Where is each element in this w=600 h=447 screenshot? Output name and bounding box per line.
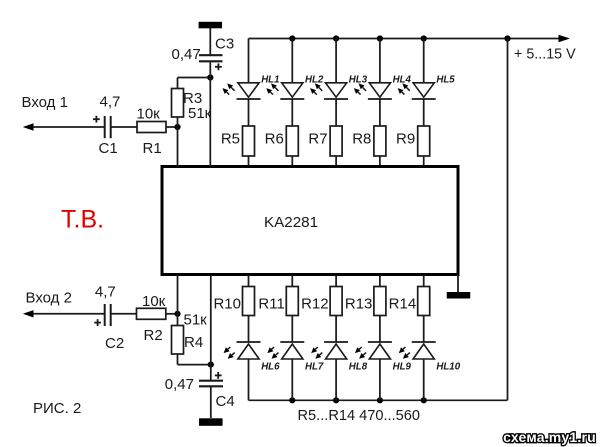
R2 label (144, 327, 163, 344)
svg-text:R5: R5 (221, 131, 240, 148)
LED HL7 light arrows (267, 347, 278, 359)
wire IC pin to R14 (423, 275, 425, 287)
LED HL10 light arrows (399, 347, 410, 359)
svg-text:R2: R2 (144, 327, 163, 344)
wire R14 to HL10 (423, 316, 425, 343)
LED HL5 label (436, 75, 455, 86)
wire HL3 to R7 (335, 99, 337, 126)
resistor R14 label (389, 296, 417, 313)
junction on bottom rail col 4 (377, 397, 383, 403)
svg-text:KA2281: KA2281 (264, 214, 318, 231)
junction on bottom rail col 5 (421, 397, 427, 403)
LED HL6 symbol (237, 342, 261, 359)
LED HL2 light arrows (266, 83, 278, 94)
svg-text:4,7: 4,7 (100, 94, 121, 111)
resistor R5 (243, 126, 255, 156)
svg-text:R5...R14 470...560: R5...R14 470...560 (298, 408, 421, 424)
svg-text:HL5: HL5 (436, 75, 455, 86)
resistor R10 (243, 287, 255, 316)
capacitor C1 (105, 116, 111, 138)
svg-text:R10: R10 (213, 296, 241, 313)
svg-text:Т.В.: Т.В. (61, 206, 104, 234)
op-amp IC U1 KA2281 body (162, 167, 458, 275)
svg-text:Вход 1: Вход 1 (22, 94, 68, 111)
LED HL8 label (349, 362, 368, 373)
junction power rail / right rail (504, 35, 510, 41)
svg-text:C1: C1 (99, 140, 118, 157)
resistor R6 label (265, 131, 284, 148)
node A junction (174, 124, 180, 130)
svg-text:+ 5...15 V: + 5...15 V (514, 47, 576, 63)
resistor R3 (172, 89, 184, 118)
svg-text:R12: R12 (301, 296, 329, 313)
svg-text:HL6: HL6 (261, 362, 280, 373)
svg-text:HL8: HL8 (349, 362, 368, 373)
svg-text:HL2: HL2 (305, 75, 324, 86)
svg-text:HL9: HL9 (393, 362, 412, 373)
R2 value 10к (142, 293, 166, 310)
wire R11 to HL7 (291, 316, 293, 343)
C3 polarity + (215, 63, 222, 70)
junction on power rail col 5 (421, 35, 427, 41)
power rail arrowhead (559, 35, 571, 42)
wire rail to HL3 (335, 39, 337, 83)
svg-text:R4: R4 (184, 334, 203, 351)
junction on power rail col 3 (333, 35, 339, 41)
wire HL2 to R6 (291, 99, 293, 126)
svg-text:C4: C4 (216, 393, 235, 410)
wire node B to IC pin (209, 78, 211, 168)
C2 value 4,7 (95, 283, 116, 300)
LED HL3 label (349, 75, 368, 86)
svg-text:R14: R14 (389, 296, 417, 313)
resistor R5 label (221, 131, 240, 148)
resistor R12 label (301, 296, 329, 313)
resistor R8 label (352, 131, 371, 148)
svg-text:10к: 10к (137, 106, 161, 123)
R1 label (143, 140, 162, 157)
svg-text:HL4: HL4 (393, 75, 412, 86)
capacitor C4 (199, 381, 223, 387)
LED HL10 symbol (412, 342, 436, 359)
svg-text:R8: R8 (352, 131, 371, 148)
wire R9 to IC pin (423, 156, 425, 167)
wire R4 down (177, 354, 179, 365)
wire HL10 to bottom rail (423, 359, 425, 400)
svg-text:HL7: HL7 (305, 362, 324, 373)
wire rail to HL4 (379, 39, 381, 83)
junction on bottom rail col 2 (289, 397, 295, 403)
LED HL5 light arrows (398, 83, 410, 94)
LED HL6 light arrows (224, 347, 235, 359)
LED HL8 symbol (324, 342, 348, 359)
input 1 arrowhead (23, 123, 34, 130)
LED HL6 label (261, 362, 280, 373)
wire node D to C4 (210, 365, 212, 381)
svg-text:0,47: 0,47 (172, 46, 201, 63)
junction on bottom rail col 3 (333, 397, 339, 403)
wire R3 to node B (178, 77, 211, 79)
wire HL7 to bottom rail (291, 359, 293, 400)
wire HL1 to R5 (248, 99, 250, 126)
svg-text:51к: 51к (188, 105, 212, 122)
junction on power rail col 2 (289, 35, 295, 41)
wire HL5 to R9 (423, 99, 425, 126)
right vertical rail (507, 39, 509, 401)
R4 label (184, 334, 203, 351)
C2 polarity + (94, 319, 101, 326)
power rail +5...15V (249, 38, 560, 40)
resistor R6 (286, 126, 298, 156)
wire R2 to node C (166, 313, 178, 315)
wire IC to ground (457, 275, 459, 292)
title Т.В. (61, 206, 104, 234)
wire node A to R3 (177, 117, 179, 127)
wire HL4 to R8 (379, 99, 381, 126)
wire R10 to HL6 (248, 316, 250, 343)
node D junction (208, 362, 214, 368)
wire C3 to ground (209, 28, 211, 55)
svg-text:схема.my1.ru: схема.my1.ru (503, 429, 596, 445)
resistor R12 (330, 287, 342, 316)
wire rail to HL5 (423, 39, 425, 83)
svg-text:РИС. 2: РИС. 2 (33, 400, 81, 417)
svg-text:R13: R13 (345, 296, 373, 313)
svg-text:Вход 2: Вход 2 (26, 289, 72, 306)
wire R8 to IC pin (379, 156, 381, 167)
LED HL7 label (305, 362, 324, 373)
watermark схема.my1.ru (503, 429, 596, 445)
wire HL6 to bottom rail (248, 359, 250, 400)
wire R13 to HL9 (379, 316, 381, 343)
node C junction (174, 311, 180, 317)
wire R4 to node D (178, 364, 211, 366)
wire HL9 to bottom rail (379, 359, 381, 400)
wire node C to R4 (177, 314, 179, 326)
wire IC pin to R10 (248, 275, 250, 287)
resistor R10 label (213, 296, 241, 313)
resistor R11 (286, 287, 298, 316)
capacitor C2 (105, 304, 111, 326)
wire IC pin to R11 (291, 275, 293, 287)
LED HL8 light arrows (311, 347, 322, 359)
C1 polarity + (93, 116, 100, 123)
wire IC pin to R13 (379, 275, 381, 287)
C4 label (216, 393, 235, 410)
svg-text:0,47: 0,47 (165, 376, 194, 393)
svg-text:R1: R1 (143, 140, 162, 157)
node B junction (207, 74, 213, 80)
wire R1 to node A (166, 126, 178, 128)
resistor R13 (374, 287, 386, 316)
svg-text:4,7: 4,7 (95, 283, 116, 300)
ground at C4 (199, 418, 223, 426)
C4 value 0,47 (165, 376, 194, 393)
C1 value 4,7 (100, 94, 121, 111)
wire IC pin to node D (210, 275, 212, 365)
resistor R9 (418, 126, 430, 156)
LED HL4 label (393, 75, 412, 86)
wire C2 to R2 (111, 313, 137, 315)
LED HL2 label (305, 75, 324, 86)
LED HL1 light arrows (223, 83, 235, 94)
resistor R4 (172, 326, 184, 355)
wire IC pin to R12 (335, 275, 337, 287)
figure label РИС. 2 (33, 400, 81, 417)
resistor R13 label (345, 296, 373, 313)
svg-text:HL10: HL10 (436, 362, 460, 373)
wire HL8 to bottom rail (335, 359, 337, 400)
resistor R7 (330, 126, 342, 156)
R3 value 51к (188, 105, 212, 122)
resistor R1 (137, 122, 166, 133)
C3 value 0,47 (172, 46, 201, 63)
LED HL1 label (261, 75, 279, 86)
note R5...R14 470...560 (298, 408, 421, 424)
svg-text:R7: R7 (308, 131, 327, 148)
bottom return rail (249, 399, 508, 401)
wire node C to IC pin (177, 275, 179, 314)
wire rail to HL1 (248, 39, 250, 83)
input 2 wire (33, 313, 104, 315)
R3 label (183, 90, 202, 107)
LED HL4 symbol (368, 83, 392, 99)
svg-text:51к: 51к (184, 312, 208, 329)
wire node B to C3 (209, 62, 211, 77)
resistor R9 label (396, 131, 415, 148)
C4 polarity + (215, 372, 222, 379)
resistor R2 (137, 308, 166, 319)
wire rail to HL2 (291, 39, 293, 83)
input 1 label Вход 1 (22, 94, 68, 111)
junction on power rail col 4 (377, 35, 383, 41)
wire R5 to IC pin (248, 156, 250, 167)
C1 label (99, 140, 118, 157)
LED HL9 symbol (368, 342, 392, 359)
input 1 wire (33, 126, 104, 128)
C3 label (215, 36, 234, 53)
wire R6 to IC pin (291, 156, 293, 167)
R1 value 10к (137, 106, 161, 123)
wire C1 to R1 (111, 126, 137, 128)
svg-text:10к: 10к (142, 293, 166, 310)
capacitor C3 (199, 55, 223, 61)
svg-text:C2: C2 (105, 335, 124, 352)
wire node A to IC pin (177, 127, 179, 167)
svg-text:R6: R6 (265, 131, 284, 148)
svg-text:HL3: HL3 (349, 75, 368, 86)
C2 label (105, 335, 124, 352)
resistor R7 label (308, 131, 327, 148)
wire R12 to HL8 (335, 316, 337, 343)
IC label KA2281 (264, 214, 318, 231)
svg-text:R9: R9 (396, 131, 415, 148)
R4 value 51к (184, 312, 208, 329)
input 2 label Вход 2 (26, 289, 72, 306)
resistor R14 (418, 287, 430, 316)
svg-text:R11: R11 (258, 296, 284, 313)
ground at IC pin (447, 292, 471, 299)
LED HL3 light arrows (310, 83, 322, 94)
LED HL4 light arrows (354, 83, 366, 94)
LED HL2 symbol (280, 83, 304, 99)
wire R7 to IC pin (335, 156, 337, 167)
resistor R11 label (258, 296, 284, 313)
LED HL5 symbol (412, 83, 436, 99)
LED HL9 label (393, 362, 412, 373)
ground at C3 (199, 22, 223, 29)
LED HL1 symbol (237, 83, 261, 99)
resistor R8 (374, 126, 386, 156)
wire R3 up (177, 78, 179, 89)
LED HL3 symbol (324, 83, 348, 99)
svg-text:C3: C3 (215, 36, 234, 53)
LED HL10 label (436, 362, 460, 373)
input 2 arrowhead (23, 310, 34, 317)
power label + 5...15 V (514, 47, 576, 63)
wire C4 to ground (210, 386, 212, 418)
LED HL9 light arrows (355, 347, 366, 359)
svg-text:HL1: HL1 (261, 75, 279, 86)
LED HL7 symbol (280, 342, 304, 359)
